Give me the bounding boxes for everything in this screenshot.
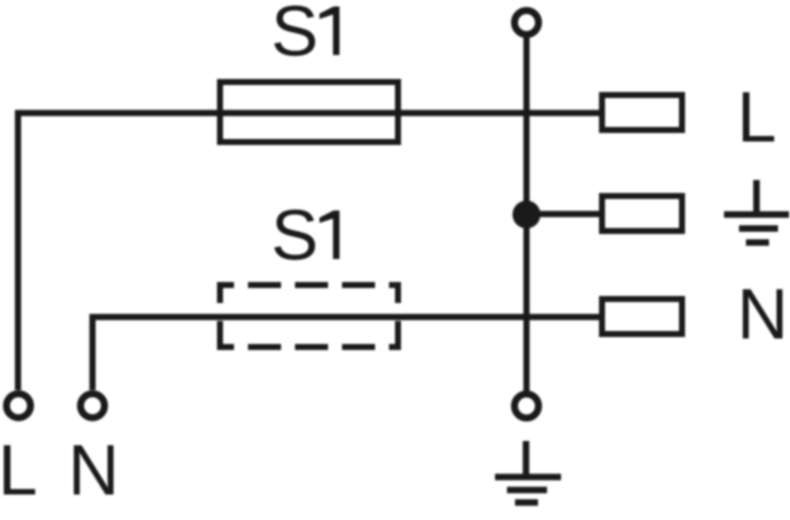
svg-text:N: N (68, 432, 119, 511)
svg-text:N: N (737, 276, 788, 355)
terminal N (602, 299, 682, 334)
switch S1 (solid) (220, 82, 398, 142)
svg-text:L: L (737, 79, 777, 158)
ground (right) (724, 180, 789, 243)
switch S1 (dashed) (217, 282, 401, 350)
svg-text:L: L (0, 432, 38, 511)
wire (523, 37, 529, 391)
terminal circle top (515, 11, 539, 35)
wire (527, 211, 602, 217)
wire (93, 317, 600, 390)
terminal circle N (81, 394, 105, 418)
terminal earth (602, 196, 682, 231)
svg-text:S: S (271, 197, 318, 276)
terminal L (602, 95, 682, 130)
terminal circle L (7, 394, 31, 418)
wire (18, 113, 599, 390)
label S1 (bottom) (271, 197, 340, 276)
svg-text:S: S (271, 0, 318, 72)
node junction (513, 201, 541, 229)
ground (bottom) (495, 441, 561, 503)
terminal circle bottom (515, 394, 539, 418)
label S1 (top) (271, 0, 340, 72)
